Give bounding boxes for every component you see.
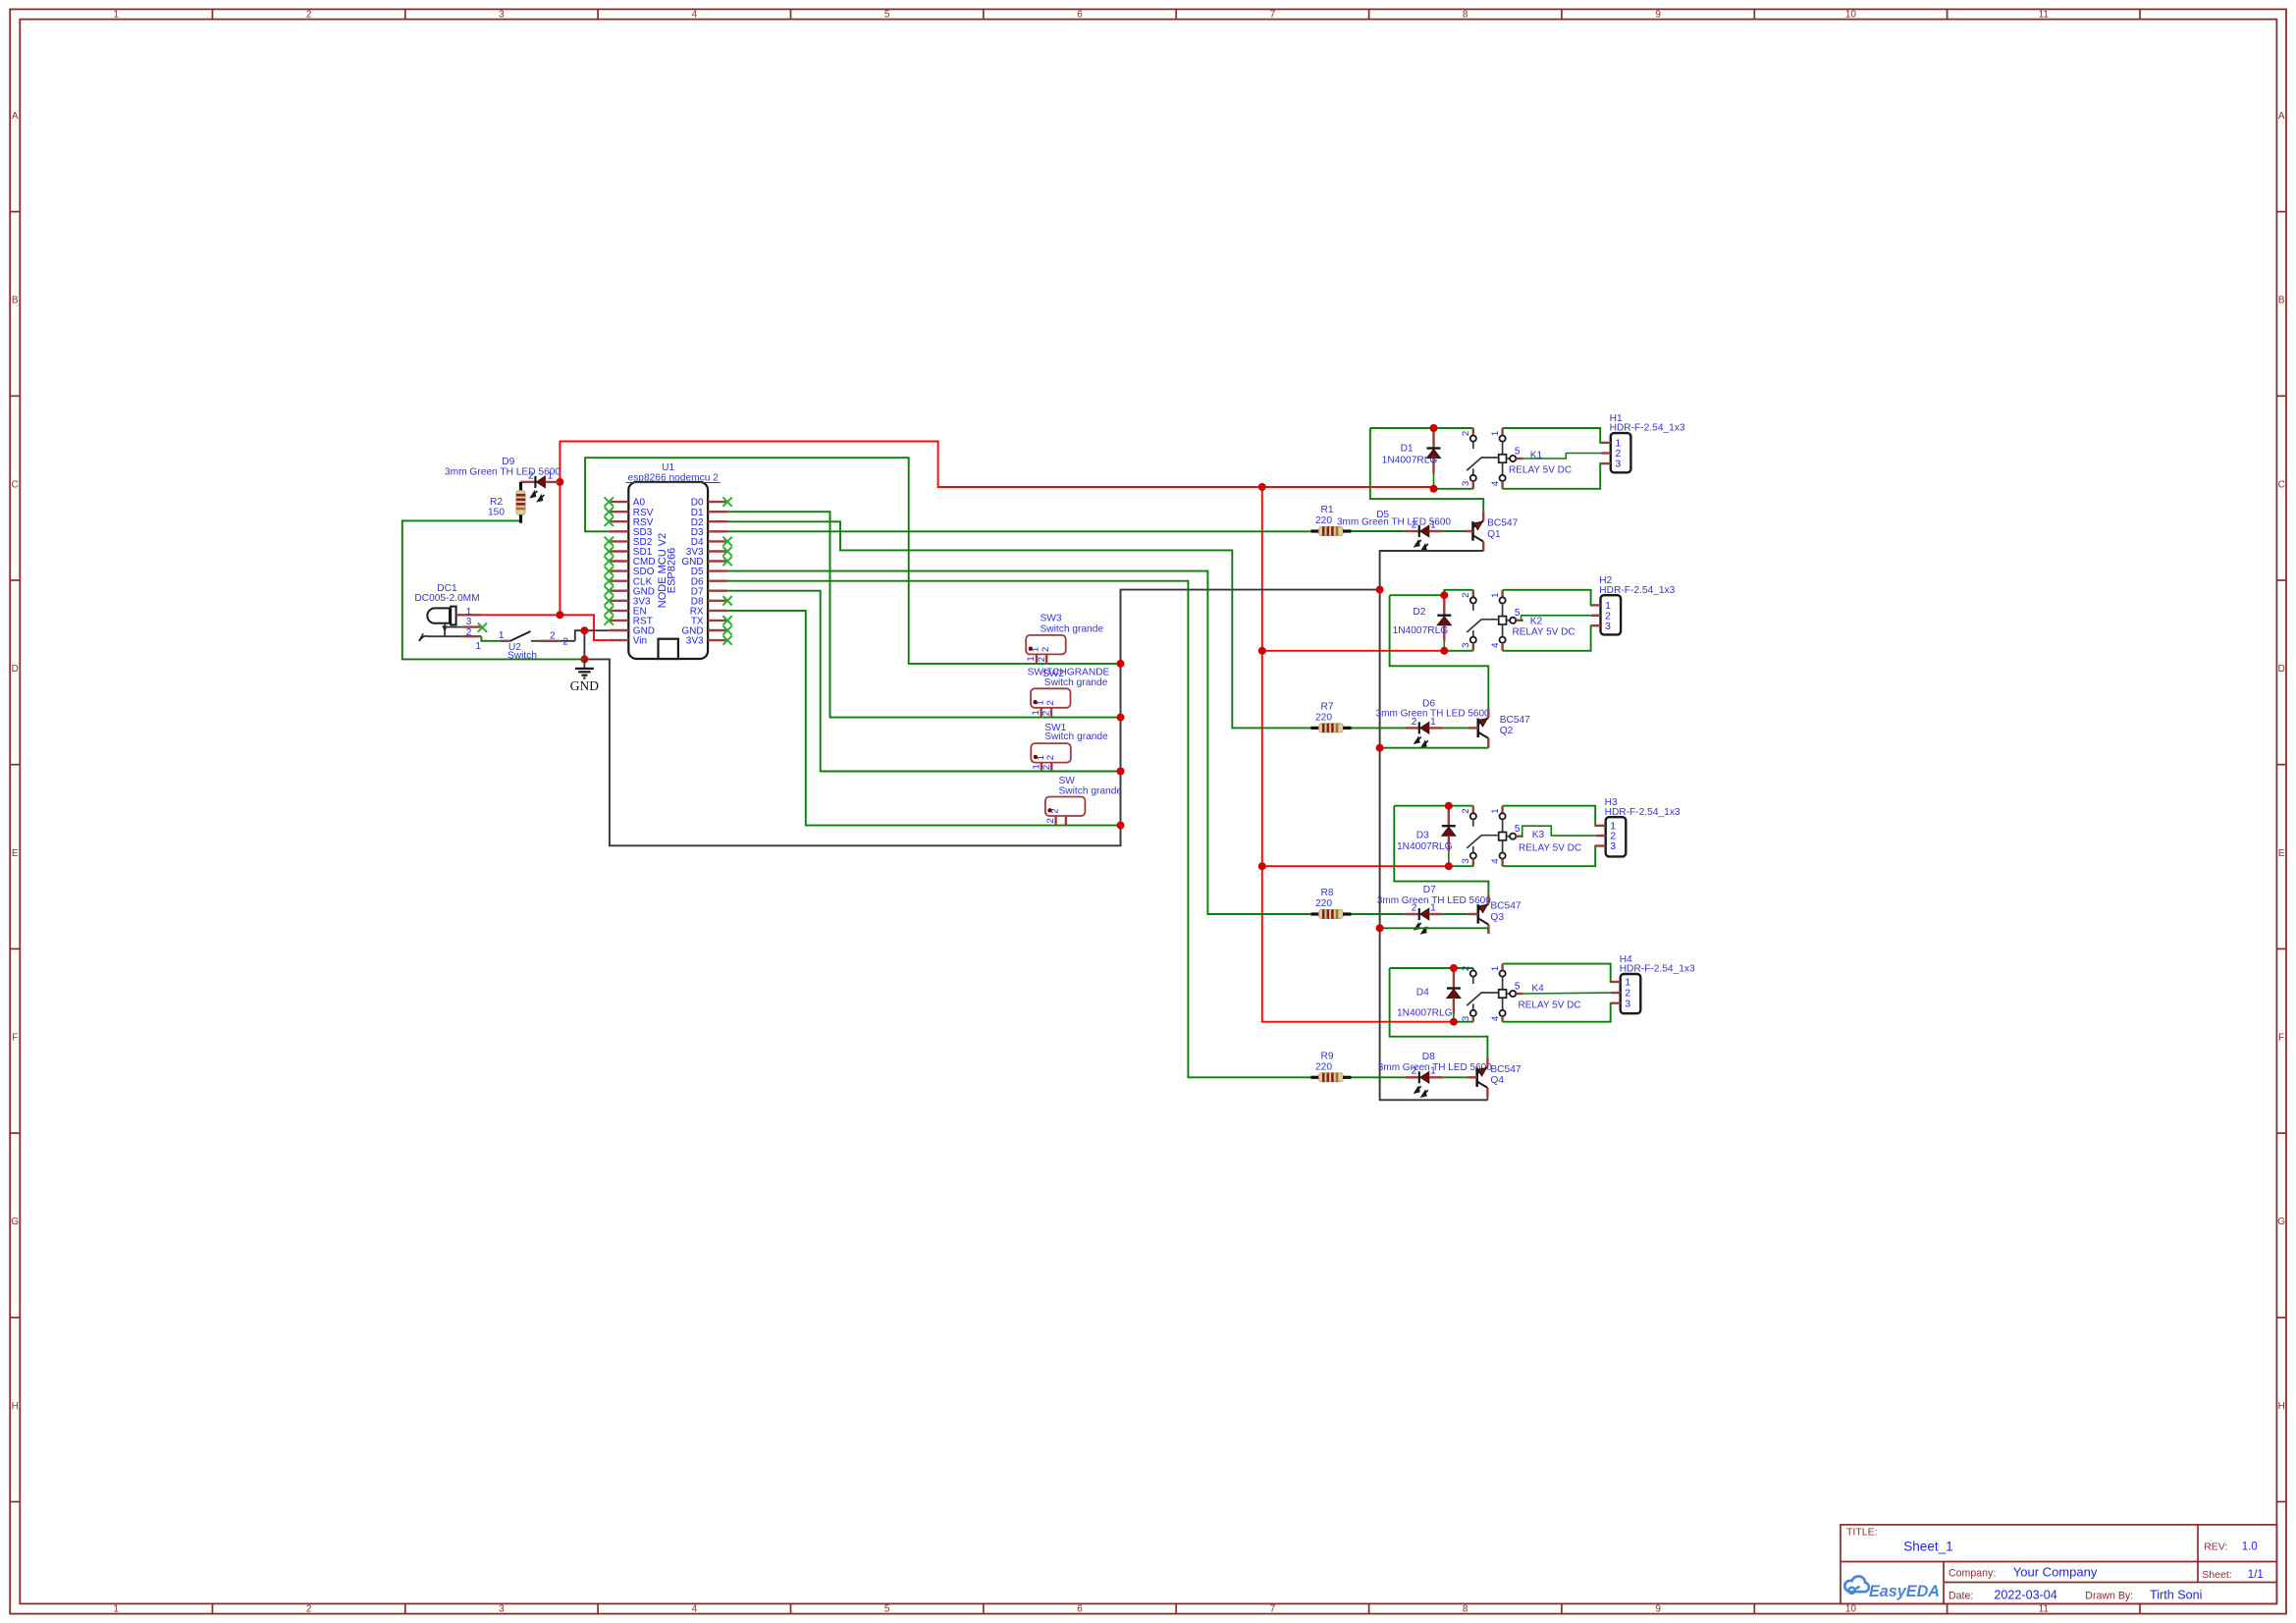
resistor R9 220: [1310, 1051, 1351, 1082]
svg-text:3V3: 3V3: [686, 636, 704, 647]
svg-text:D2: D2: [1413, 607, 1425, 618]
wire Q3 emitter to GND rail: [1380, 927, 1489, 929]
svg-text:D1: D1: [1401, 444, 1414, 455]
svg-text:4: 4: [1490, 858, 1501, 864]
svg-text:4: 4: [692, 10, 698, 21]
wire relay block 3 bottom rail green: [1449, 865, 1473, 867]
connector H1 HDR-F-2.54_1x3: [1601, 413, 1685, 472]
svg-text:K3: K3: [1532, 830, 1545, 840]
junction SW rail: [1117, 822, 1125, 830]
svg-text:3mm Green TH LED 5600: 3mm Green TH LED 5600: [1376, 709, 1490, 720]
svg-text:1: 1: [1490, 431, 1501, 436]
svg-text:C: C: [2278, 479, 2285, 490]
wire relay block 4 bottom rail green: [1454, 1021, 1473, 1023]
wire LED to Q1 base: [1443, 530, 1464, 532]
wire relay block 3 top rail: [1394, 805, 1473, 807]
svg-text:Switch grande: Switch grande: [1044, 677, 1108, 688]
relay K4 RELAY 5V DC: [1461, 964, 1611, 1022]
svg-text:1: 1: [1031, 764, 1041, 769]
svg-text:Drawn By:: Drawn By:: [2085, 1590, 2133, 1601]
svg-text:Q1: Q1: [1487, 529, 1501, 540]
svg-text:EasyEDA: EasyEDA: [1869, 1583, 1940, 1600]
svg-text:3: 3: [1461, 858, 1471, 863]
svg-text:3mm Green TH LED 5600: 3mm Green TH LED 5600: [1337, 517, 1451, 528]
svg-text:K2: K2: [1530, 616, 1543, 626]
svg-text:2: 2: [1049, 808, 1060, 813]
svg-text:220: 220: [1315, 713, 1332, 724]
svg-text:SW3: SW3: [1041, 614, 1062, 624]
svg-text:3mm Green TH LED 5600: 3mm Green TH LED 5600: [1378, 1062, 1492, 1073]
wire D3 to R1: [727, 530, 1310, 532]
LED D7 3mm Green TH LED 5600: [1377, 885, 1491, 934]
EasyEDA logo: [1844, 1576, 1940, 1600]
svg-text:esp8266 nodemcu 2: esp8266 nodemcu 2: [628, 473, 720, 484]
svg-text:D: D: [12, 664, 19, 675]
wire 5V red net: [481, 442, 1454, 1022]
junction SW1 rail: [1117, 768, 1125, 776]
svg-text:SWITCHGRANDE: SWITCHGRANDE: [1028, 668, 1110, 678]
svg-text:1: 1: [1026, 656, 1037, 661]
svg-text:RELAY 5V DC: RELAY 5V DC: [1513, 626, 1575, 637]
svg-text:G: G: [2277, 1217, 2285, 1227]
svg-text:2: 2: [306, 1604, 312, 1615]
connector H2 HDR-F-2.54_1x3: [1591, 575, 1676, 634]
svg-text:4: 4: [1490, 1015, 1501, 1021]
svg-text:D8: D8: [1422, 1052, 1435, 1062]
svg-text:RELAY 5V DC: RELAY 5V DC: [1519, 842, 1581, 853]
svg-text:6: 6: [1077, 1604, 1083, 1615]
svg-text:2: 2: [1045, 755, 1056, 760]
svg-text:R9: R9: [1320, 1051, 1333, 1061]
svg-text:3: 3: [1461, 481, 1471, 486]
junction diode D1 top: [1430, 424, 1438, 432]
wire relay block 2 left/collector loop: [1390, 595, 1489, 708]
svg-text:GND: GND: [570, 678, 599, 693]
junction 5V block2 feed: [1258, 647, 1266, 655]
svg-text:2: 2: [1045, 818, 1056, 823]
diode D1 1N4007RLG: [1382, 430, 1441, 489]
svg-text:1.0: 1.0: [2242, 1542, 2258, 1553]
svg-text:2: 2: [1461, 431, 1471, 436]
wire relay block 2 bottom rail green: [1444, 650, 1473, 652]
svg-text:Switch: Switch: [507, 650, 537, 661]
svg-text:3mm Green TH LED 5600: 3mm Green TH LED 5600: [445, 466, 561, 477]
wire R8 to LED: [1352, 913, 1406, 915]
svg-text:H: H: [12, 1401, 19, 1412]
svg-text:ESP8266: ESP8266: [667, 548, 678, 593]
svg-text:10: 10: [1845, 10, 1857, 21]
wire SD3 to SW3 rail: [585, 458, 1120, 664]
switch SW1 Switch grande: [1031, 723, 1108, 772]
svg-text:1: 1: [475, 641, 481, 652]
svg-text:1: 1: [1490, 593, 1501, 598]
svg-text:2: 2: [550, 631, 556, 642]
relay K2 RELAY 5V DC: [1461, 590, 1591, 651]
junction diode D2 bottom: [1440, 647, 1448, 655]
LED D6 3mm Green TH LED 5600: [1376, 699, 1490, 747]
wire Q2 emitter to GND rail: [1380, 747, 1489, 749]
svg-text:R1: R1: [1320, 505, 1333, 515]
ground GND: [570, 659, 599, 693]
svg-text:D7: D7: [1423, 885, 1436, 895]
junction diode D3 bottom: [1445, 862, 1453, 870]
svg-text:HDR-F-2.54_1x3: HDR-F-2.54_1x3: [1620, 964, 1695, 975]
svg-text:5: 5: [1515, 981, 1521, 992]
svg-text:D3: D3: [1416, 831, 1429, 841]
wire relay block 4 top rail: [1390, 967, 1473, 969]
wire relay block 1 top rail: [1370, 427, 1473, 429]
connector H3 HDR-F-2.54_1x3: [1596, 797, 1681, 856]
wire relay block 1 bottom rail green: [1434, 488, 1473, 490]
junction diode D1 bottom: [1430, 485, 1438, 493]
transistor Q4 BC547: [1468, 1057, 1522, 1097]
junction 5V at DC1: [556, 611, 563, 619]
switch SW2 SWITCHGRANDE Switch grande: [1028, 668, 1110, 718]
svg-text:1N4007RLG: 1N4007RLG: [1397, 1008, 1453, 1019]
svg-text:3: 3: [1461, 1016, 1471, 1021]
svg-text:2: 2: [1041, 647, 1051, 652]
svg-text:SW: SW: [1059, 776, 1076, 786]
wire Q1 emitter to GND rail: [1380, 551, 1484, 590]
svg-text:2: 2: [1041, 711, 1052, 716]
svg-text:9: 9: [1655, 1604, 1661, 1615]
svg-text:3: 3: [499, 1604, 505, 1615]
svg-text:BC547: BC547: [1487, 518, 1518, 529]
svg-text:D: D: [2278, 664, 2285, 675]
svg-text:1N4007RLG: 1N4007RLG: [1393, 625, 1449, 636]
junction GND pin node: [580, 626, 588, 634]
junction diode D2 top: [1440, 591, 1448, 599]
svg-text:1: 1: [113, 10, 119, 21]
svg-text:5: 5: [884, 1604, 890, 1615]
svg-text:2: 2: [466, 627, 472, 638]
svg-text:BC547: BC547: [1490, 901, 1521, 912]
svg-text:2022-03-04: 2022-03-04: [1994, 1588, 2056, 1601]
svg-text:REV:: REV:: [2204, 1542, 2227, 1553]
wire R9 to LED: [1352, 1076, 1406, 1078]
svg-text:Switch grande: Switch grande: [1044, 731, 1108, 742]
svg-text:2: 2: [1041, 765, 1052, 770]
svg-text:RELAY 5V DC: RELAY 5V DC: [1509, 465, 1572, 476]
svg-text:A: A: [12, 111, 19, 122]
svg-text:1: 1: [1490, 966, 1501, 971]
junction GND symbol node: [580, 655, 588, 663]
junction SW2 rail: [1117, 714, 1125, 722]
svg-text:A: A: [2278, 111, 2285, 122]
svg-text:Company:: Company:: [1949, 1567, 1996, 1579]
svg-text:2: 2: [1461, 966, 1471, 971]
relay K1 RELAY 5V DC: [1461, 428, 1601, 489]
svg-text:8: 8: [1463, 1604, 1468, 1615]
wire R7 to LED: [1352, 727, 1406, 729]
wire D5 to R8: [727, 571, 1310, 914]
svg-text:Sheet:: Sheet:: [2202, 1569, 2231, 1581]
wire relay block 4 left/collector loop: [1390, 968, 1488, 1057]
svg-text:K4: K4: [1531, 984, 1544, 995]
wire D6 to R9: [727, 581, 1310, 1078]
svg-text:Q4: Q4: [1490, 1075, 1504, 1086]
svg-text:1: 1: [1031, 710, 1041, 715]
wire R1 to LED: [1352, 530, 1406, 532]
svg-text:Sheet_1: Sheet_1: [1903, 1540, 1952, 1554]
LED D8 3mm Green TH LED 5600: [1378, 1052, 1492, 1097]
svg-text:1: 1: [113, 1604, 119, 1615]
svg-text:220: 220: [1315, 898, 1332, 909]
svg-text:R7: R7: [1320, 701, 1333, 712]
wire D7 to SW1 rail: [727, 591, 1120, 772]
svg-text:G: G: [11, 1217, 19, 1227]
svg-text:4: 4: [692, 1604, 698, 1615]
svg-text:11: 11: [2039, 1604, 2050, 1615]
switch SW3 Switch grande: [1026, 614, 1103, 664]
svg-text:3: 3: [1461, 643, 1471, 648]
connector H4 HDR-F-2.54_1x3: [1611, 954, 1695, 1013]
resistor R8 220: [1310, 888, 1351, 919]
svg-text:2: 2: [1461, 808, 1471, 813]
svg-text:3: 3: [1605, 621, 1611, 632]
svg-text:220: 220: [1315, 1062, 1332, 1073]
junction diode D4 top: [1450, 964, 1458, 972]
svg-text:Q3: Q3: [1490, 912, 1504, 923]
transistor Q2 BC547: [1468, 708, 1530, 747]
svg-text:4: 4: [1490, 480, 1501, 486]
svg-text:7: 7: [1270, 10, 1276, 21]
svg-text:B: B: [12, 296, 19, 306]
wire DC1 pin2 to U2: [481, 636, 501, 641]
LED D5 3mm Green TH LED 5600: [1337, 510, 1451, 551]
svg-text:4: 4: [1490, 642, 1501, 648]
no-connect X on DC1 pin 3: [478, 622, 487, 631]
svg-text:K1: K1: [1530, 450, 1543, 460]
junction Q3 emitter GND: [1376, 924, 1384, 932]
resistor R1 220: [1310, 505, 1351, 536]
svg-text:1N4007RLG: 1N4007RLG: [1397, 841, 1453, 852]
wire relay block 1 left/collector loop: [1370, 428, 1483, 512]
svg-text:Tirth Soni: Tirth Soni: [2150, 1588, 2202, 1601]
svg-text:TITLE:: TITLE:: [1846, 1527, 1878, 1539]
diode D2 1N4007RLG: [1393, 597, 1452, 651]
svg-text:Vin: Vin: [633, 636, 647, 647]
svg-text:2: 2: [306, 10, 312, 21]
svg-text:HDR-F-2.54_1x3: HDR-F-2.54_1x3: [1610, 423, 1685, 434]
svg-text:HDR-F-2.54_1x3: HDR-F-2.54_1x3: [1605, 807, 1681, 818]
switch SW Switch grande: [1045, 776, 1122, 826]
svg-text:B: B: [2278, 296, 2285, 306]
wire relay block 2 top rail: [1390, 594, 1445, 596]
svg-text:3: 3: [1625, 998, 1630, 1009]
diode D3 1N4007RLG: [1397, 807, 1456, 866]
wire D1 to SW2 rail: [727, 512, 1120, 717]
transistor Q1 BC547: [1464, 512, 1519, 551]
svg-text:3: 3: [499, 10, 505, 21]
junction diode D3 top: [1445, 802, 1453, 810]
svg-text:DC005-2.0MM: DC005-2.0MM: [414, 593, 479, 604]
junction Q2 emitter GND: [1376, 744, 1384, 752]
relay K3 RELAY 5V DC: [1461, 806, 1596, 867]
wire relay block 3 left/collector loop: [1394, 806, 1488, 894]
svg-text:E: E: [12, 848, 19, 859]
svg-text:BC547: BC547: [1500, 715, 1530, 726]
svg-text:2: 2: [1461, 593, 1471, 598]
svg-text:3: 3: [1615, 459, 1621, 470]
svg-text:F: F: [12, 1033, 18, 1044]
svg-text:BC547: BC547: [1490, 1064, 1521, 1075]
svg-text:F: F: [2278, 1033, 2284, 1044]
svg-text:2: 2: [1045, 700, 1056, 705]
svg-text:Switch grande: Switch grande: [1059, 785, 1123, 796]
svg-text:11: 11: [2039, 10, 2050, 21]
wire RX to SW rail: [727, 611, 1120, 826]
transistor Q3 BC547: [1468, 894, 1522, 934]
junction diode D4 bottom: [1450, 1018, 1458, 1026]
diode D4 1N4007RLG: [1397, 970, 1461, 1022]
junction 5V rail split: [1258, 483, 1266, 491]
wire LED to Q2 base: [1443, 727, 1468, 729]
wire LED to Q3 base: [1443, 913, 1468, 915]
title block: [1841, 1525, 2276, 1604]
junction 5V at D9 anode: [556, 478, 563, 486]
svg-text:6: 6: [1077, 10, 1083, 21]
junction SW3 rail: [1117, 660, 1125, 668]
svg-text:5: 5: [1515, 446, 1521, 457]
svg-text:1: 1: [499, 630, 505, 641]
svg-text:1/1: 1/1: [2248, 1569, 2264, 1581]
svg-text:5: 5: [884, 10, 890, 21]
svg-text:R8: R8: [1320, 888, 1333, 898]
svg-text:9: 9: [1655, 10, 1661, 21]
junction 5V block3 feed: [1258, 862, 1266, 870]
svg-text:C: C: [12, 479, 19, 490]
svg-text:D4: D4: [1416, 988, 1429, 999]
wire D2 to R7: [727, 521, 1310, 728]
resistor R2 150: [488, 482, 525, 523]
svg-text:2: 2: [1037, 657, 1047, 662]
svg-text:220: 220: [1315, 515, 1332, 526]
wire GND black net: [575, 590, 1488, 1101]
svg-text:150: 150: [488, 508, 505, 518]
svg-text:H: H: [2278, 1401, 2285, 1412]
svg-text:2: 2: [562, 637, 568, 648]
switch U2: [475, 630, 574, 661]
svg-text:1: 1: [1490, 808, 1501, 813]
svg-text:E: E: [2278, 848, 2285, 859]
svg-text:Your Company: Your Company: [2013, 1564, 2098, 1579]
svg-text:8: 8: [1463, 10, 1468, 21]
connector DC1 DC005-2.0MM: [414, 583, 481, 641]
wire LED to Q4 base: [1443, 1076, 1468, 1078]
svg-text:3: 3: [1610, 840, 1616, 852]
resistor R7 220: [1310, 701, 1351, 732]
svg-text:7: 7: [1270, 1604, 1276, 1615]
svg-text:5: 5: [1515, 824, 1521, 835]
svg-text:Q2: Q2: [1500, 726, 1514, 736]
svg-text:3mm Green TH LED 5600: 3mm Green TH LED 5600: [1377, 895, 1491, 906]
svg-text:RELAY 5V DC: RELAY 5V DC: [1519, 1001, 1581, 1011]
svg-text:5: 5: [1515, 608, 1521, 619]
svg-text:1N4007RLG: 1N4007RLG: [1382, 456, 1438, 466]
svg-text:Date:: Date:: [1949, 1590, 1973, 1601]
junction Q1 emitter GND: [1376, 586, 1384, 594]
svg-text:3: 3: [466, 617, 472, 627]
IC U1 esp8266 nodemcu 2 (NodeMCU module): [605, 462, 732, 659]
svg-text:HDR-F-2.54_1x3: HDR-F-2.54_1x3: [1599, 585, 1675, 596]
LED D9 3mm Green TH LED 5600: [445, 457, 561, 501]
wire Q4 emitter to GND rail: [1486, 1097, 1488, 1100]
wire R2 to GND green: [402, 520, 585, 659]
svg-text:Switch grande: Switch grande: [1041, 623, 1104, 634]
svg-text:10: 10: [1845, 1604, 1857, 1615]
